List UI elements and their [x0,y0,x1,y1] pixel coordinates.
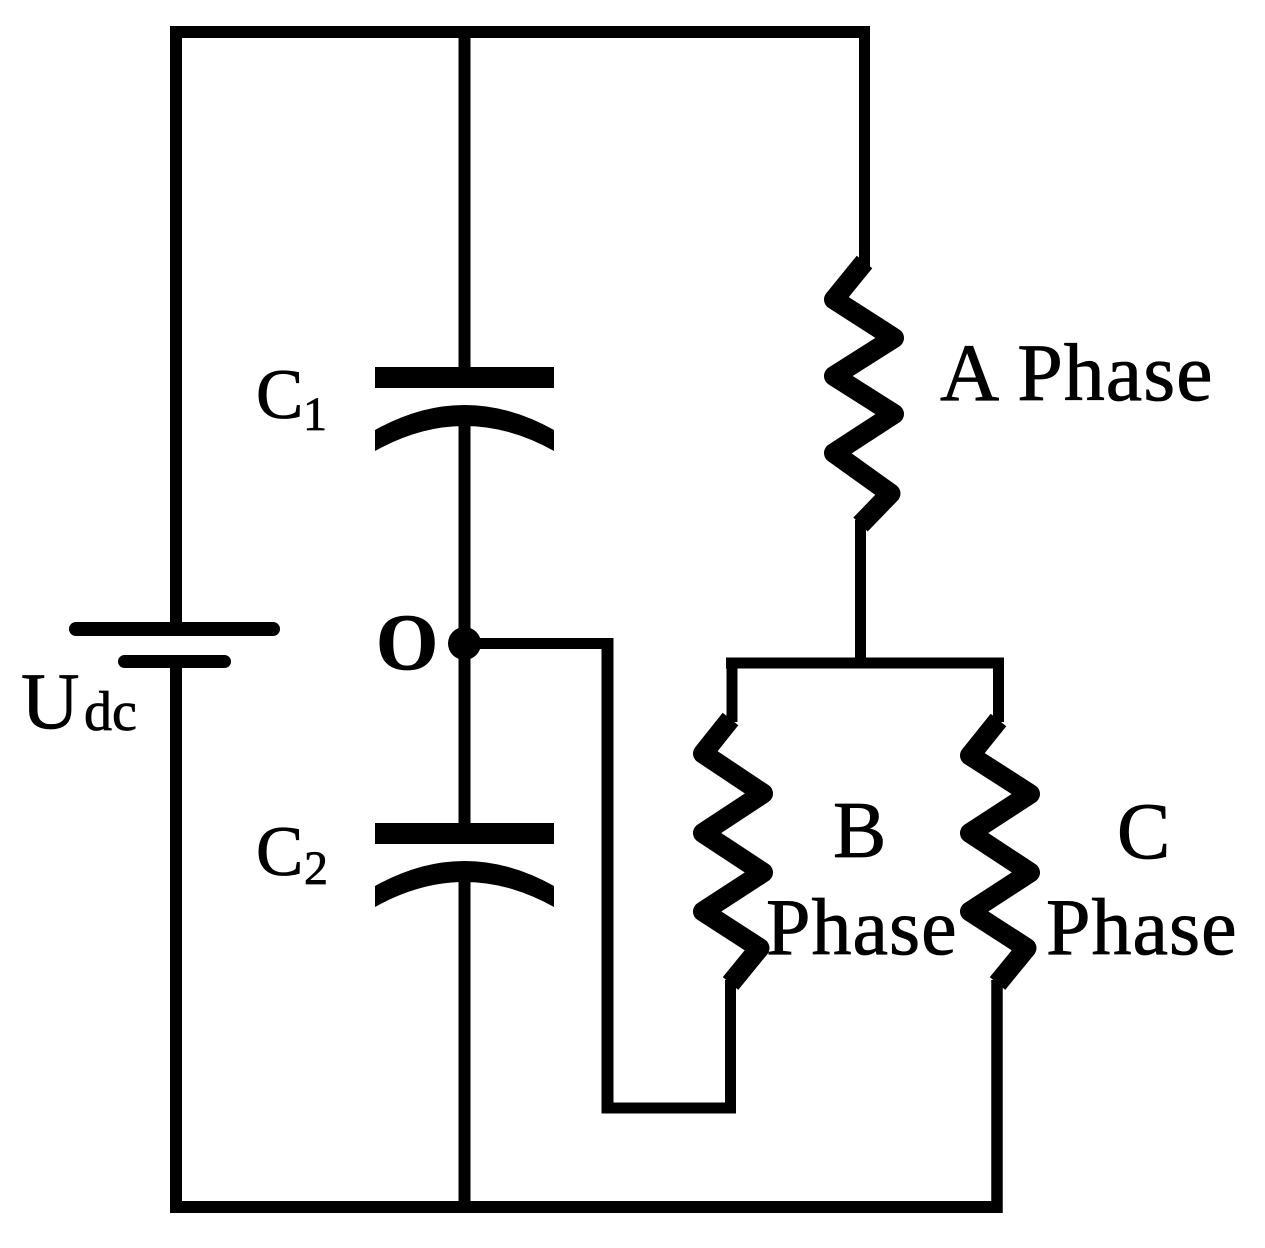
node O junction dot [448,627,481,660]
svg-text:C: C [256,813,303,891]
battery Udc long plate [76,622,273,636]
label C1 [256,356,327,441]
capacitor C2 curved plate [375,861,554,907]
svg-text:1: 1 [303,388,327,441]
svg-text:C: C [256,356,303,434]
label C2 [256,813,328,895]
wire: B phase bottom lead [725,980,736,1114]
wire: B/C connecting bar [726,658,1004,669]
svg-text:U: U [21,656,80,746]
wire: A phase bottom lead [855,520,866,668]
wire: node O horizontal jog [465,638,614,649]
battery Udc short plate [125,655,225,668]
wire: A phase top lead (top bus to resistor) [859,26,870,270]
svg-text:C: C [1117,788,1170,876]
svg-text:dc: dc [84,681,137,743]
wire: bottom horizontal bus [170,1201,1003,1213]
svg-text:O: O [376,599,438,687]
wire: left vertical lower (Udc negative lead) [170,668,182,1213]
svg-text:B: B [833,787,886,875]
svg-text:Phase: Phase [1046,884,1238,972]
resistor B phase [703,719,763,984]
svg-text:A Phase: A Phase [940,327,1214,418]
wire: node O to C2 [459,644,471,836]
capacitor C1 curved plate [375,405,554,451]
wire: top horizontal bus [170,26,870,38]
wire: C2 to bottom bus [459,880,471,1213]
wire: jog vertical down [602,638,614,1114]
wire: B phase top stub [727,658,738,722]
svg-text:Phase: Phase [766,884,958,972]
wire: C phase top stub [993,658,1004,722]
capacitor C1 top plate [375,367,554,388]
resistor C phase [970,720,1030,984]
wire: capacitor branch top (top bus to C1) [459,26,471,380]
wire: left vertical upper (Udc positive lead) [170,26,182,622]
capacitor C2 top plate [375,823,554,844]
label Udc [21,656,137,746]
svg-text:2: 2 [304,842,328,895]
wire: C1 to node O [459,424,471,650]
wire: C phase bottom lead [991,980,1003,1213]
wire: jog bottom horizontal to B phase [602,1103,737,1114]
resistor A phase [834,262,894,525]
